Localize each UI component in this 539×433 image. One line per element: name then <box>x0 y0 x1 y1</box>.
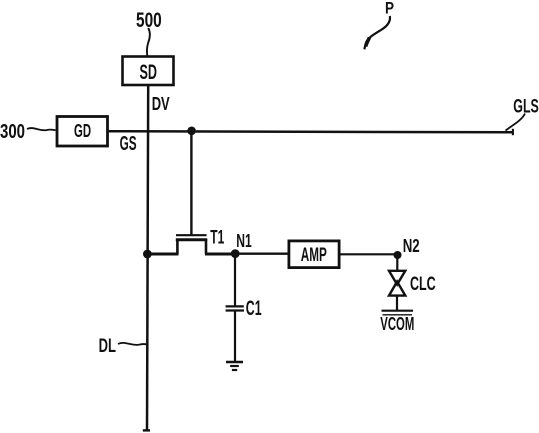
transistor T1 <box>176 235 207 254</box>
leader 300 to GD <box>27 128 56 130</box>
capacitor C1 <box>226 306 244 310</box>
svg-text:DV: DV <box>152 94 170 114</box>
svg-text:P: P <box>385 0 394 17</box>
block SD <box>123 57 174 86</box>
svg-text:DL: DL <box>99 336 117 357</box>
leader GLS <box>506 114 526 131</box>
wire gate down to T1 <box>190 131 192 235</box>
svg-text:GS: GS <box>120 133 137 155</box>
node N2 dot <box>394 251 402 259</box>
wire N1 to AMP <box>235 252 288 254</box>
svg-text:GD: GD <box>74 120 91 141</box>
junction dot on gate line <box>187 127 196 136</box>
ground <box>226 362 243 370</box>
wire source to DL <box>146 253 179 256</box>
svg-text:N2: N2 <box>403 236 420 256</box>
svg-text:VCOM: VCOM <box>380 313 414 334</box>
leader DL to data line <box>118 343 147 345</box>
svg-text:GLS: GLS <box>513 96 539 118</box>
wire CLC to VCOM <box>396 296 398 311</box>
svg-text:300: 300 <box>0 121 25 143</box>
leader P <box>364 16 390 49</box>
wire N2 down to CLC <box>396 255 398 271</box>
data line bottom tick <box>143 429 150 431</box>
wire C1 to ground <box>234 311 236 362</box>
svg-text:CLC: CLC <box>410 273 436 295</box>
leader from 500 to SD <box>147 28 150 56</box>
label VCOM (overlined) <box>380 313 414 334</box>
gate line end tick <box>512 129 514 135</box>
svg-text:AMP: AMP <box>301 245 327 266</box>
node N1 dot <box>231 249 240 258</box>
svg-text:C1: C1 <box>246 297 262 320</box>
junction dot on DL <box>143 250 152 259</box>
svg-text:SD: SD <box>140 61 158 84</box>
wire AMP to N2 <box>341 253 398 255</box>
wire N1 down to C1 <box>234 254 236 306</box>
capacitor CLC (liquid crystal) <box>389 271 405 296</box>
wire drain to N1 <box>205 253 236 256</box>
svg-text:T1: T1 <box>210 227 224 248</box>
block GD <box>57 117 108 147</box>
svg-text:N1: N1 <box>236 231 252 251</box>
wire gate line GS to GLS <box>109 131 514 132</box>
block AMP <box>289 241 339 268</box>
wire data line vertical DL <box>147 86 148 430</box>
VCOM terminal bar <box>382 310 414 312</box>
